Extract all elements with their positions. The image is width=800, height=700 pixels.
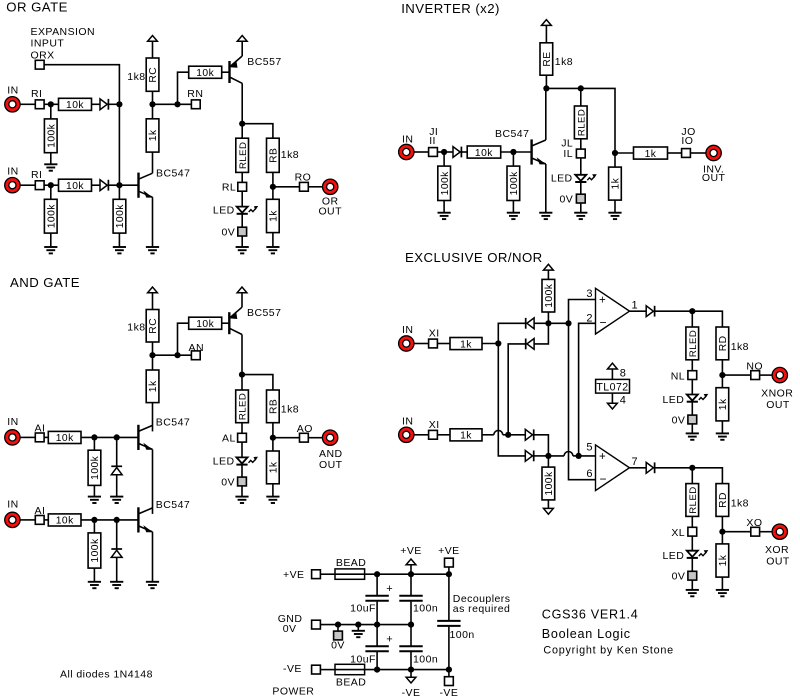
svg-text:+: + bbox=[386, 583, 393, 595]
transistor Q3 BC547 (AND top) bbox=[138, 425, 153, 450]
svg-text:AN: AN bbox=[189, 342, 205, 354]
svg-text:0V: 0V bbox=[331, 639, 345, 651]
connector XNOR OUT bbox=[772, 367, 787, 382]
svg-text:0V: 0V bbox=[672, 414, 686, 426]
ground (AND in 2 R) bbox=[88, 582, 101, 588]
label IL bbox=[563, 148, 573, 160]
wire 1k to ground bbox=[272, 233, 274, 247]
connector IN (OR input 2) bbox=[5, 178, 20, 193]
label AN bbox=[189, 342, 205, 354]
wire 100k to arrow bbox=[547, 500, 549, 509]
wire RC to node bbox=[152, 342, 154, 355]
svg-text:4: 4 bbox=[620, 395, 627, 407]
LED (AND) bbox=[236, 457, 258, 465]
svg-text:100k: 100k bbox=[544, 283, 555, 308]
wire 10uF to -VE rail bbox=[376, 652, 378, 670]
connector AND OUT bbox=[322, 430, 337, 445]
ground (OR in 2) bbox=[44, 247, 57, 253]
value 1k8 bbox=[281, 403, 299, 415]
wire diode to node B bbox=[534, 455, 549, 457]
wire X1 up to diode row A bbox=[498, 323, 525, 343]
value 100n (decoupler) bbox=[450, 629, 475, 641]
value 1k8 bbox=[127, 71, 145, 83]
wire node B to 100k bbox=[547, 456, 549, 467]
pin 7 bbox=[632, 456, 639, 468]
wire output 1 bbox=[630, 310, 647, 312]
svg-text:IN: IN bbox=[7, 165, 18, 177]
ground (AND in 2 D) bbox=[110, 582, 123, 588]
label -VE (arrow) bbox=[402, 687, 421, 699]
wire node to RO bbox=[273, 186, 300, 188]
LED (XOR) bbox=[687, 550, 709, 558]
wire diode to base bbox=[108, 184, 138, 186]
resistor 100k (AND in 1) bbox=[88, 450, 101, 485]
pad NO bbox=[751, 371, 760, 380]
wire 10k to base bbox=[222, 322, 230, 324]
svg-text:RB: RB bbox=[269, 399, 280, 414]
ground (inverter base) bbox=[507, 213, 520, 219]
svg-text:OUT: OUT bbox=[319, 459, 343, 471]
connector IN (inverter) bbox=[399, 144, 414, 159]
wire node to AO bbox=[273, 437, 300, 439]
svg-text:100k: 100k bbox=[47, 123, 58, 148]
ground (XNOR 1k) bbox=[716, 433, 729, 439]
wire AI to 10k bbox=[44, 519, 48, 521]
wire 100k to ground bbox=[50, 153, 52, 165]
wire 1k to JO bbox=[668, 152, 682, 154]
svg-text:+VE: +VE bbox=[400, 545, 422, 557]
wire RL to LED bbox=[241, 191, 243, 206]
node GND/earth bbox=[355, 622, 361, 628]
resistor 10k (inverter) bbox=[467, 146, 501, 159]
node -VE/decoupler bbox=[446, 667, 452, 673]
wire to 100k R1a bbox=[50, 104, 52, 119]
wire 10uF bottom top bbox=[376, 625, 378, 647]
wire arrow to 100k bbox=[547, 270, 549, 279]
power +VE arrow (TL072 pin8) bbox=[608, 363, 618, 369]
svg-text:II: II bbox=[429, 135, 436, 147]
resistor 1k (XNOR load) bbox=[716, 388, 729, 421]
svg-text:0V: 0V bbox=[221, 226, 235, 238]
note Copyright bbox=[543, 645, 674, 657]
label XO bbox=[746, 517, 762, 529]
wire node B right bbox=[548, 455, 564, 457]
diode (XOR out) bbox=[646, 462, 654, 473]
wire node to RD bbox=[692, 468, 722, 484]
label OR bbox=[322, 195, 339, 207]
wire hop to pin2 node bbox=[573, 455, 579, 457]
wire 1k to ground bbox=[614, 200, 616, 213]
label XI bbox=[429, 419, 440, 431]
wire 100n to GND rail bbox=[410, 602, 412, 625]
pad +VE input bbox=[312, 570, 321, 579]
node input2/100k bbox=[48, 182, 54, 188]
node and2/100k bbox=[91, 517, 97, 523]
node GND/10uF bbox=[374, 622, 380, 628]
svg-text:RD: RD bbox=[718, 492, 729, 508]
connector IN (XOR input 2) bbox=[399, 427, 414, 442]
resistor 10k (OR in 2) bbox=[59, 179, 92, 192]
wire to earth bbox=[357, 625, 359, 631]
wire NL to LED bbox=[691, 380, 693, 395]
node GND/0V pad bbox=[335, 622, 341, 628]
wire node to RB bbox=[242, 124, 273, 139]
wire diode down to node B bbox=[534, 435, 549, 456]
wire JO to INV OUT bbox=[690, 152, 705, 154]
label XNOR bbox=[761, 388, 793, 400]
wire node to RN bbox=[153, 103, 192, 105]
ground (inverter LED) bbox=[574, 213, 587, 219]
label -VE (pad) bbox=[283, 663, 302, 675]
pad NL bbox=[688, 371, 697, 380]
svg-text:Boolean Logic: Boolean Logic bbox=[542, 627, 631, 641]
svg-text:IN: IN bbox=[7, 85, 18, 97]
svg-text:AND GATE: AND GATE bbox=[10, 275, 80, 290]
LED (inverter) bbox=[575, 174, 597, 182]
pad 0V (power) bbox=[334, 631, 343, 640]
wire bus to 100k bbox=[118, 185, 120, 199]
value 100n bbox=[413, 602, 438, 614]
power +VE arrow (RE) bbox=[542, 20, 552, 26]
svg-text:IN: IN bbox=[402, 324, 413, 336]
wire RLED to RL bbox=[241, 172, 243, 182]
value 1k8 bbox=[555, 56, 573, 68]
wire node to 1k bbox=[152, 104, 154, 119]
node AND output stage bbox=[239, 372, 245, 378]
label RO bbox=[295, 171, 312, 183]
pin 2 bbox=[586, 312, 593, 324]
label IO bbox=[681, 135, 693, 147]
power +VE arrow (OR RC) bbox=[148, 36, 158, 42]
node OR output stage bbox=[239, 121, 245, 127]
pad RL bbox=[238, 182, 247, 191]
label IN bbox=[402, 324, 413, 336]
svg-text:1k: 1k bbox=[460, 339, 472, 350]
svg-text:8: 8 bbox=[620, 367, 627, 379]
ground (XOR 1k) bbox=[716, 590, 729, 596]
svg-text:RLED: RLED bbox=[688, 330, 699, 357]
svg-text:IO: IO bbox=[681, 135, 693, 147]
node -VE/100n bbox=[408, 667, 414, 673]
wire GND rail bbox=[320, 624, 411, 626]
svg-text:RLED: RLED bbox=[577, 109, 588, 136]
svg-text:1k8: 1k8 bbox=[281, 403, 299, 415]
node X1 bbox=[495, 340, 501, 346]
diode (XNOR out) bbox=[646, 306, 654, 317]
svg-text:+VE: +VE bbox=[438, 545, 460, 557]
wire to RLED bbox=[580, 88, 582, 106]
pin 3 bbox=[586, 288, 593, 300]
ground (AND 1k) bbox=[266, 497, 279, 503]
label ORX bbox=[31, 49, 55, 61]
label OUT bbox=[702, 172, 726, 184]
wire RB to 1k bbox=[272, 423, 274, 451]
resistor RC 1k8 (OR) bbox=[146, 58, 159, 91]
wire node to 1k bbox=[152, 355, 154, 370]
note Decouplers bbox=[453, 593, 511, 605]
node RC/1k (AND) bbox=[149, 352, 155, 358]
node +VE/10uF bbox=[374, 571, 380, 577]
svg-text:RI: RI bbox=[31, 169, 42, 181]
svg-text:100k: 100k bbox=[47, 204, 58, 229]
wire hop over X1 riser bbox=[494, 430, 503, 434]
LED (XNOR) bbox=[687, 394, 709, 402]
svg-text:RI: RI bbox=[31, 88, 42, 100]
wire IN to JI bbox=[414, 151, 429, 153]
pad RN bbox=[191, 100, 200, 109]
svg-text:LED: LED bbox=[551, 172, 573, 184]
wire node to RLED bbox=[241, 124, 243, 139]
svg-text:RB: RB bbox=[269, 148, 280, 163]
resistor RC 1k8 (AND) bbox=[146, 310, 159, 343]
wire node to RLED bbox=[241, 375, 243, 390]
transistor Q2 BC557 (OR) bbox=[230, 56, 243, 83]
label II bbox=[429, 135, 436, 147]
svg-text:10k: 10k bbox=[66, 181, 84, 192]
wire -VE rail bbox=[335, 669, 449, 671]
label BC557 bbox=[247, 56, 281, 68]
pin 6 bbox=[586, 468, 593, 480]
svg-text:OR GATE: OR GATE bbox=[6, 0, 68, 15]
svg-text:1k: 1k bbox=[460, 431, 472, 442]
wire 10k to base bbox=[81, 436, 138, 438]
svg-text:OUT: OUT bbox=[766, 556, 790, 568]
wire 100n to -VE rail bbox=[410, 652, 412, 670]
pad 0V (OR LED) bbox=[238, 227, 247, 236]
node rail/RLED bbox=[578, 85, 584, 91]
wire RLED to AL bbox=[241, 423, 243, 434]
wire XL to LED bbox=[691, 536, 693, 551]
wire Q3 emitter to Q4 collector bbox=[152, 449, 154, 514]
wire arrow to RC bbox=[152, 293, 154, 310]
wire node to AN bbox=[153, 354, 196, 356]
wire 0V to ground bbox=[241, 486, 243, 497]
svg-text:IN: IN bbox=[402, 415, 413, 427]
svg-text:1k8: 1k8 bbox=[731, 497, 749, 509]
wire AL to LED bbox=[241, 442, 243, 457]
svg-text:RLED: RLED bbox=[238, 393, 249, 420]
wire node to RD bbox=[692, 311, 722, 327]
label BC547 bbox=[495, 128, 529, 140]
ground (XOR LED) bbox=[686, 590, 699, 596]
wire arrow stem bbox=[410, 670, 412, 678]
pad XI (1) bbox=[429, 339, 438, 348]
svg-text:RL: RL bbox=[222, 181, 236, 193]
value 1k8 bbox=[731, 341, 749, 353]
resistor 1k (inverter out) bbox=[634, 147, 668, 160]
svg-text:10k: 10k bbox=[66, 100, 84, 111]
svg-text:2: 2 bbox=[586, 312, 593, 324]
wire node to RLED bbox=[691, 311, 693, 327]
svg-text:OUT: OUT bbox=[318, 206, 342, 218]
svg-text:IN: IN bbox=[7, 416, 18, 428]
wire hop over pin3 riser bbox=[564, 452, 573, 456]
label IN bbox=[7, 416, 18, 428]
svg-text:INPUT: INPUT bbox=[31, 38, 65, 50]
label LED bbox=[213, 205, 235, 217]
power +VE arrow (AND Q) bbox=[237, 287, 247, 293]
node collector rail bbox=[543, 85, 549, 91]
wire LED to 0V bbox=[241, 465, 243, 477]
svg-text:AO: AO bbox=[297, 423, 313, 435]
ground (AND in 1 R) bbox=[88, 497, 101, 503]
svg-text:-VE: -VE bbox=[439, 687, 458, 699]
wire RI to 10k bbox=[44, 103, 58, 105]
power +VE arrow (OR Q2) bbox=[237, 36, 247, 42]
pad AI (2) bbox=[35, 516, 44, 525]
wire node A to riser bbox=[548, 322, 568, 324]
label 0V bbox=[221, 226, 235, 238]
wire 100n bottom top bbox=[410, 625, 412, 647]
pad GND input bbox=[312, 620, 321, 629]
wire node to RB bbox=[242, 375, 273, 390]
ground (XNOR LED) bbox=[686, 433, 699, 439]
title INVERTER (x2) bbox=[401, 1, 500, 16]
pin 5 bbox=[586, 442, 593, 454]
capacitor 10uF (+VE) bbox=[365, 596, 388, 601]
pad -VE out bbox=[445, 677, 454, 686]
svg-text:BC547: BC547 bbox=[156, 416, 190, 428]
svg-text:100n: 100n bbox=[413, 602, 438, 614]
svg-text:TL072: TL072 bbox=[596, 381, 628, 393]
LED (OR) bbox=[237, 206, 259, 214]
wire XI to 1k bbox=[437, 434, 450, 436]
resistor 100k (OR base pulldown) bbox=[113, 199, 126, 233]
svg-text:1k: 1k bbox=[718, 398, 729, 410]
label AO bbox=[297, 423, 313, 435]
resistor RLED (inverter) bbox=[574, 106, 587, 139]
power -VE arrow (XOR 100k) bbox=[544, 508, 554, 514]
resistor RLED (OR) bbox=[236, 138, 249, 172]
wire diode to node A bbox=[534, 322, 548, 324]
power +VE arrow (AND RC) bbox=[148, 287, 158, 293]
node input1/100k bbox=[48, 101, 54, 107]
wire RB to node bbox=[272, 172, 274, 199]
svg-text:100k: 100k bbox=[115, 204, 126, 229]
svg-text:5: 5 bbox=[586, 442, 593, 454]
label LED bbox=[551, 172, 573, 184]
wire LED to 0V bbox=[691, 558, 693, 571]
wire to 100k bbox=[93, 437, 95, 450]
svg-text:1k: 1k bbox=[269, 461, 280, 473]
resistor 100k (node A bias) bbox=[542, 279, 555, 312]
ground (OR 1k) bbox=[266, 247, 279, 253]
ground (inverter 1k) bbox=[608, 213, 621, 219]
diode (inverter input) bbox=[453, 147, 461, 158]
node inverter out bbox=[612, 150, 618, 156]
svg-text:XL: XL bbox=[671, 527, 685, 539]
resistor 1k (AND collector) bbox=[146, 370, 159, 403]
value 10uF bbox=[350, 654, 376, 666]
svg-text:RC: RC bbox=[148, 67, 159, 83]
svg-text:LED: LED bbox=[213, 455, 235, 467]
transistor Q4 BC547 (AND bottom) bbox=[138, 507, 153, 532]
svg-text:10k: 10k bbox=[196, 68, 214, 79]
connector INV OUT bbox=[706, 145, 721, 160]
wire Q2 collector down bbox=[241, 83, 243, 123]
svg-text:6: 6 bbox=[586, 468, 593, 480]
pad 0V (AND) bbox=[238, 477, 247, 486]
connector IN (AND input 2) bbox=[5, 512, 20, 527]
svg-text:10k: 10k bbox=[56, 433, 74, 444]
wire 0V to ground bbox=[691, 424, 693, 434]
wire 1k to node bbox=[482, 343, 498, 345]
label INV. bbox=[703, 163, 724, 175]
wire emitter to ground bbox=[545, 164, 547, 213]
connector IN (OR input 1) bbox=[5, 97, 20, 112]
label BC547 bbox=[156, 499, 190, 511]
label OUT bbox=[319, 459, 343, 471]
resistor 100k (OR in 1 pulldown) bbox=[44, 119, 57, 153]
wire riser to pin3 bbox=[569, 300, 596, 324]
resistor 10k (AND to Q2) bbox=[189, 317, 222, 330]
note CGS36 VER1.4 bbox=[542, 608, 639, 622]
node RC/1k bbox=[149, 101, 155, 107]
resistor RD 1k8 (XOR) bbox=[716, 484, 729, 517]
diode DC (in2 to node B) bbox=[525, 429, 533, 440]
resistor 1k (XOR in 1) bbox=[450, 338, 482, 351]
node JI/100k bbox=[441, 149, 447, 155]
svg-text:Copyright by Ken Stone: Copyright by Ken Stone bbox=[543, 645, 674, 657]
wire RE to node bbox=[545, 75, 547, 88]
label RN bbox=[187, 88, 203, 100]
svg-text:RLED: RLED bbox=[688, 486, 699, 513]
wire IN1 to RI bbox=[20, 103, 35, 105]
resistor 100k (AND in 2) bbox=[88, 533, 101, 568]
svg-text:1k: 1k bbox=[645, 149, 657, 160]
wire -VE to bead bbox=[320, 669, 335, 671]
label 0V (gnd) bbox=[283, 623, 297, 635]
wire decoupler top bbox=[448, 567, 450, 621]
svg-text:RLED: RLED bbox=[238, 142, 249, 169]
svg-text:+: + bbox=[599, 451, 606, 463]
pad AL bbox=[238, 433, 247, 442]
wire X1 down to diode row D bbox=[498, 344, 525, 456]
svg-text:100k: 100k bbox=[544, 471, 555, 496]
wire LED to 0V bbox=[580, 182, 582, 194]
wire diode to ground bbox=[116, 557, 118, 581]
svg-text:BEAD: BEAD bbox=[336, 557, 366, 569]
svg-text:AI: AI bbox=[35, 423, 46, 435]
svg-text:LED: LED bbox=[663, 394, 685, 406]
svg-text:-VE: -VE bbox=[283, 663, 302, 675]
svg-text:1k: 1k bbox=[148, 129, 159, 141]
resistor 10k (AND in 1) bbox=[48, 431, 81, 444]
node +VE/decoupler bbox=[446, 571, 452, 577]
svg-text:OUT: OUT bbox=[702, 172, 726, 184]
wire AI to 10k bbox=[44, 436, 48, 438]
wire 10uF top bbox=[376, 574, 378, 596]
wire 100k to ground bbox=[50, 233, 52, 247]
svg-text:0V: 0V bbox=[672, 571, 686, 583]
svg-text:0V: 0V bbox=[559, 194, 573, 206]
label NL bbox=[671, 370, 685, 382]
svg-text:XI: XI bbox=[429, 328, 440, 340]
node XOR stage bbox=[689, 465, 695, 471]
resistor 100k (inverter base) bbox=[507, 166, 520, 200]
wire to pin5 bbox=[579, 455, 596, 457]
svg-text:XI: XI bbox=[429, 419, 440, 431]
diode D2 (OR in 2) bbox=[100, 180, 108, 191]
label OUT bbox=[766, 556, 790, 568]
node AND out bbox=[270, 435, 276, 441]
svg-text:OUT: OUT bbox=[766, 399, 790, 411]
wire 1k to hop bbox=[482, 434, 494, 436]
wire to 100k under input2 bbox=[50, 185, 52, 199]
wire 10k to base bbox=[81, 519, 138, 521]
svg-text:1k: 1k bbox=[611, 177, 622, 189]
wire decoupler bottom bbox=[448, 627, 450, 677]
